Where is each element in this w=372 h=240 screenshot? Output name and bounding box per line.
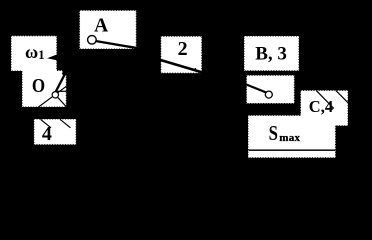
svg-text:C,4: C,4 (309, 97, 333, 116)
svg-text:S: S (269, 122, 278, 145)
svg-text:4: 4 (42, 123, 52, 145)
svg-text:A: A (94, 16, 108, 37)
svg-text:max: max (279, 132, 300, 144)
svg-text:O: O (32, 75, 45, 98)
svg-text:2: 2 (178, 38, 188, 60)
svg-text:B, 3: B, 3 (255, 44, 287, 65)
